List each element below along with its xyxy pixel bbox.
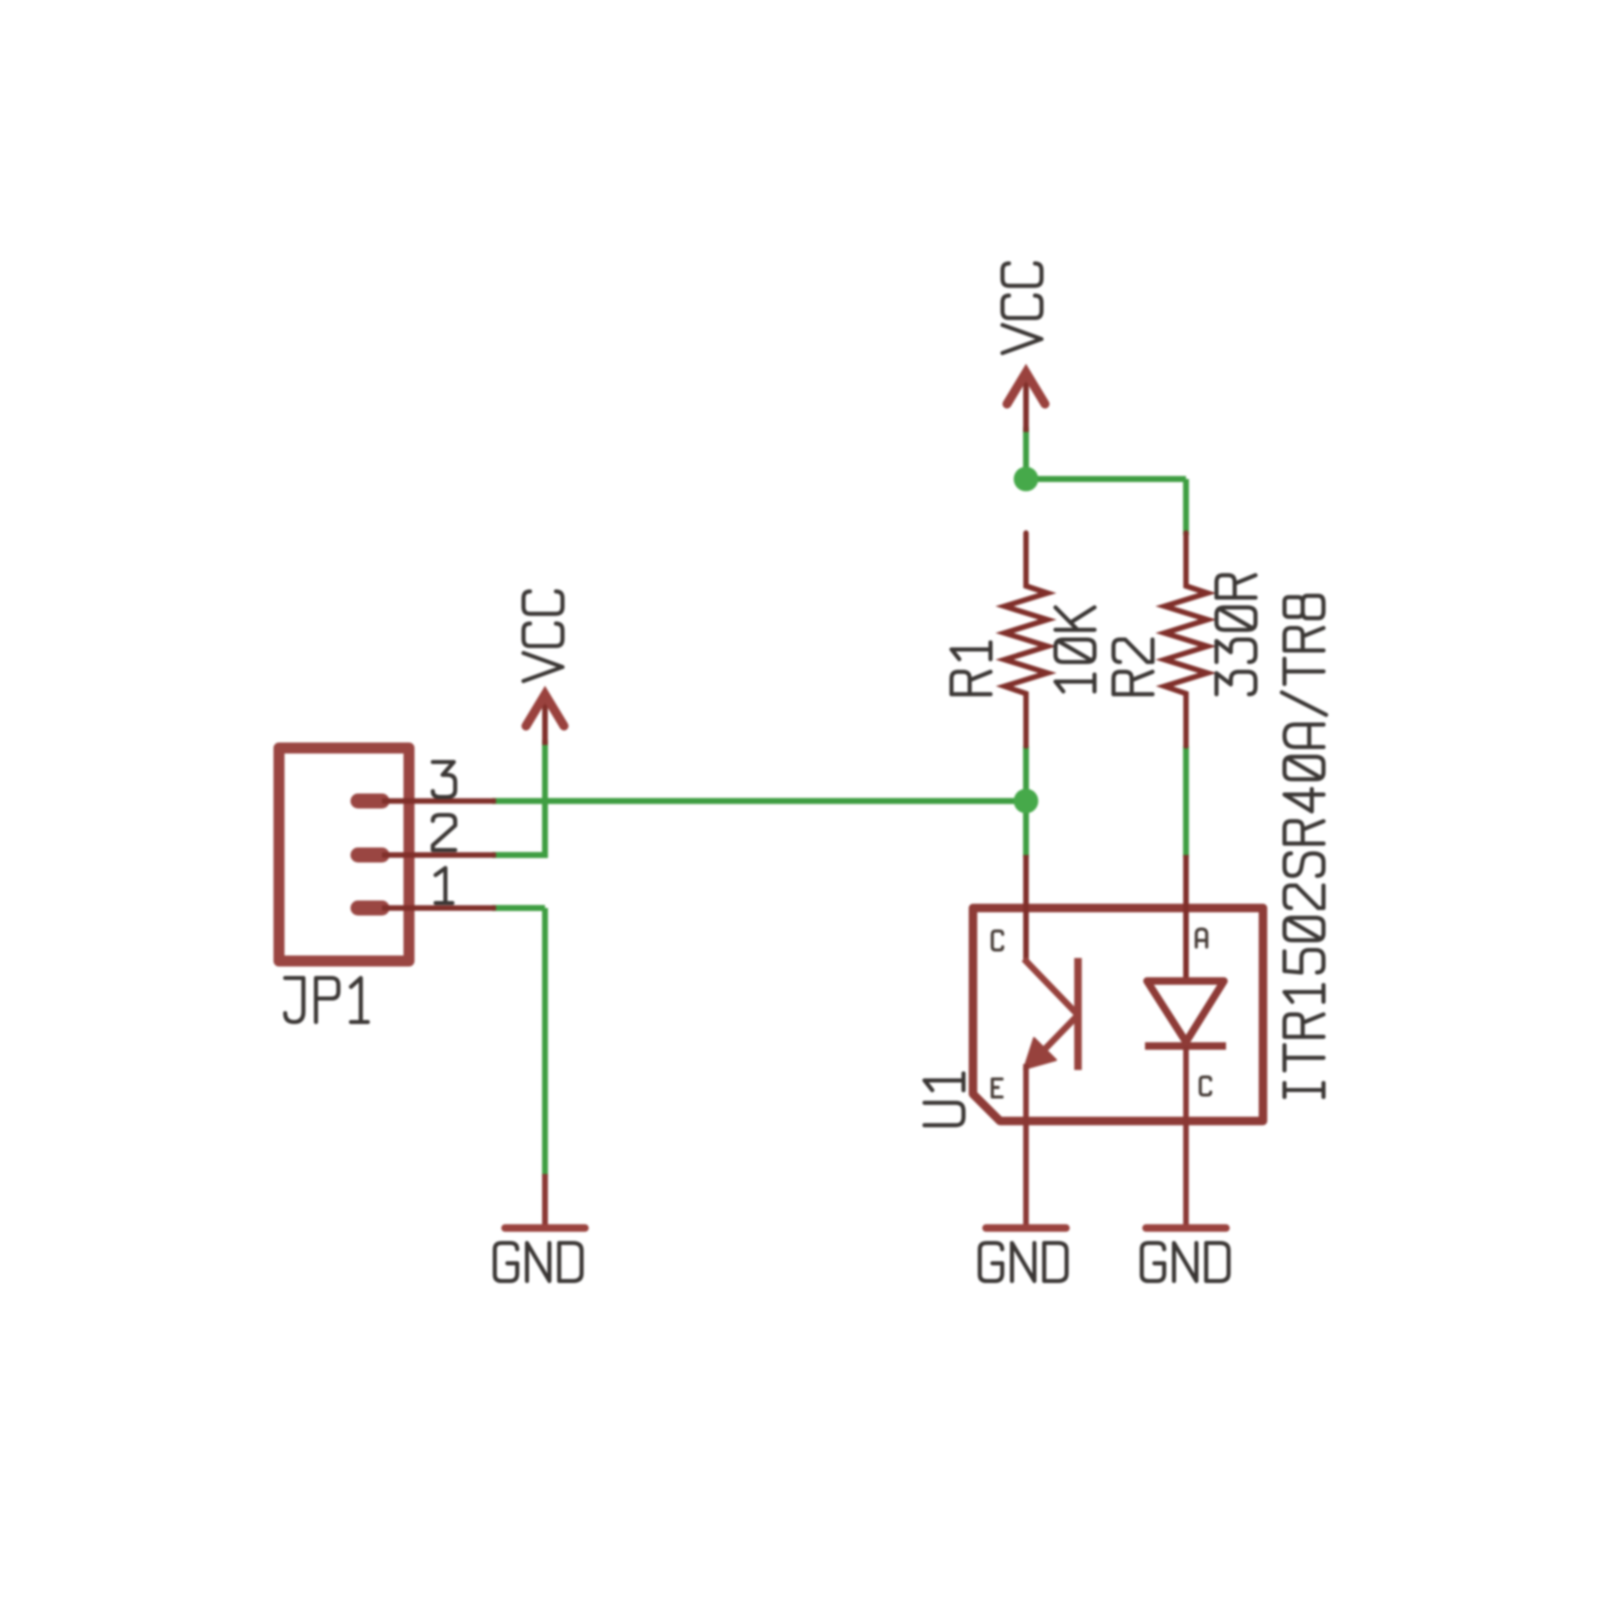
optocoupler U1 name label <box>925 1073 964 1125</box>
junction dot on VCC net at R1 top <box>1014 467 1039 492</box>
resistor R1 <box>1005 533 1048 746</box>
connector JP1 pin 3 lead <box>382 798 496 804</box>
pin label E (emitter) <box>992 1079 1002 1097</box>
connector JP1 body <box>279 748 409 961</box>
ground symbol GND (middle) <box>986 1224 1066 1232</box>
pin label C (cathode) <box>1200 1077 1210 1095</box>
optocoupler U1 body <box>973 908 1263 1121</box>
phototransistor emitter diagonal <box>1044 1016 1077 1050</box>
resistor R2 name label <box>1114 640 1153 695</box>
pin number 3 <box>433 762 455 797</box>
wire net N$1: R1 bottom to junction to opto collector <box>1023 746 1029 857</box>
connector JP1 name label <box>285 978 368 1022</box>
supply symbol VCC (left) arrow <box>542 694 548 745</box>
wire VCC net: right VCC symbol to junction <box>1023 427 1029 479</box>
resistor R2 <box>1165 533 1208 746</box>
optocoupler LED triangle <box>1147 981 1224 1042</box>
junction dot on net N$1 <box>1014 789 1039 814</box>
wire VCC net: JP1 pin 2 to left VCC symbol <box>492 852 545 858</box>
ground symbol GND (right) label <box>1142 1243 1229 1281</box>
phototransistor emitter arrowhead <box>1024 1038 1056 1069</box>
connector JP1 pin 1 pad <box>358 901 382 916</box>
resistor R1 name label <box>952 642 991 694</box>
connector JP1 pin 2 lead <box>382 852 496 858</box>
phototransistor base bar <box>1074 958 1082 1070</box>
phototransistor collector diagonal <box>1024 959 1077 1014</box>
supply symbol VCC (right) arrow <box>1023 372 1029 432</box>
ground symbol GND (left) <box>542 1174 548 1226</box>
wire VCC net: vertical drop to R2 pin <box>1183 479 1189 535</box>
connector JP1 pin 1 lead <box>382 905 496 911</box>
wire GND net: JP1 pin 1 to left GND symbol <box>492 905 545 911</box>
wire VCC net: junction to R2 top, horizontal <box>1023 476 1186 482</box>
resistor R2 value label 330R <box>1217 575 1256 694</box>
connector JP1 pin 2 pad <box>358 848 382 863</box>
optocoupler U1 emitter pin lead down to GND <box>1023 1064 1029 1226</box>
ground symbol GND (right) <box>1146 1224 1226 1232</box>
wire net N$1: horizontal from JP1 pin 3 to junction <box>492 798 1026 804</box>
ground symbol GND (left) label <box>495 1243 582 1281</box>
optocoupler LED cathode lead down to GND <box>1183 1046 1189 1226</box>
pin number 2 <box>433 815 455 850</box>
supply symbol VCC (right) label <box>1003 263 1042 353</box>
optocoupler LED cathode bar <box>1145 1042 1226 1050</box>
ground symbol GND (middle) label <box>980 1243 1067 1281</box>
resistor R1 value label 10K <box>1056 607 1095 691</box>
supply symbol VCC (left) label <box>524 591 563 681</box>
optocoupler U1 value label ITR1502SR40A/TR8 <box>1282 596 1326 1097</box>
optocoupler LED anode lead <box>1183 855 1189 984</box>
pin number 1 <box>436 868 453 903</box>
optocoupler U1 collector pin lead <box>1023 855 1029 962</box>
pin label A (anode) <box>1196 929 1206 947</box>
connector JP1 pin 3 pad <box>358 794 382 809</box>
pin label C (collector) <box>992 931 1002 950</box>
wire net: R2 bottom to opto anode <box>1183 746 1189 857</box>
